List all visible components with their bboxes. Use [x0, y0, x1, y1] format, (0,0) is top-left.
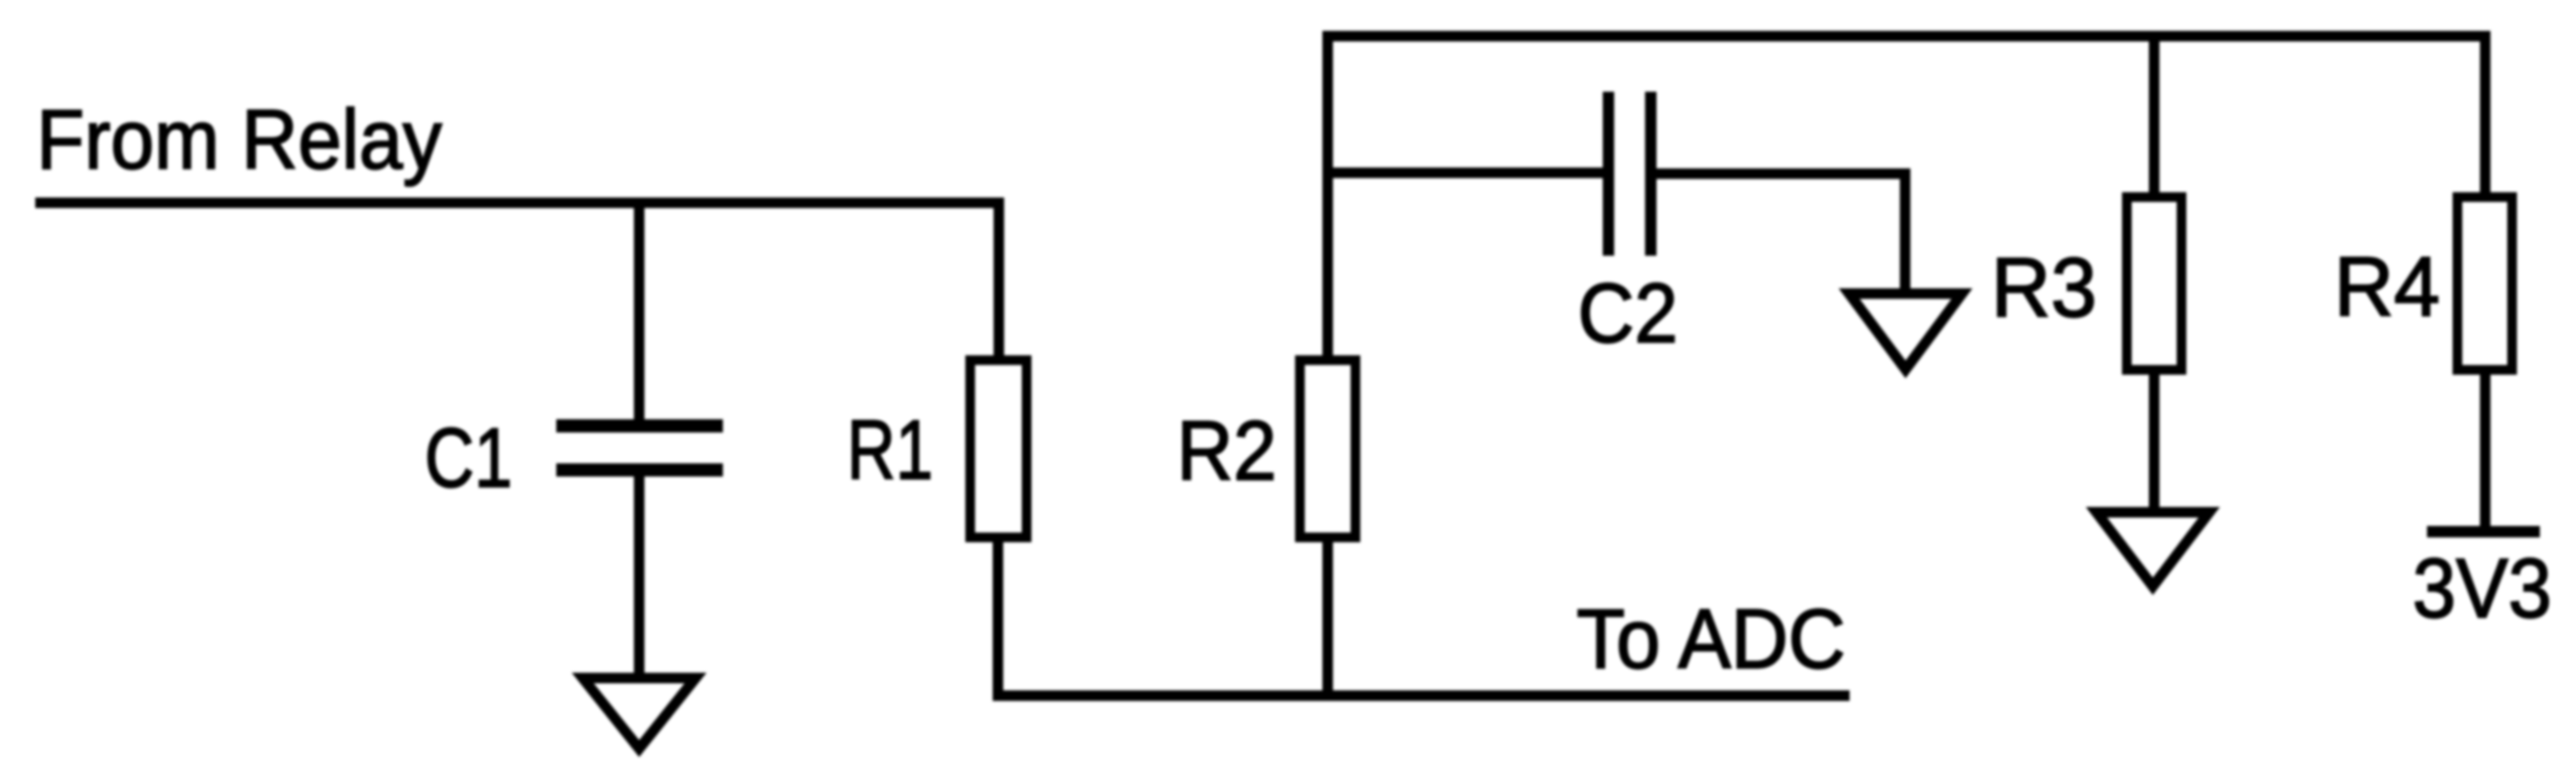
ground (below R3): [2096, 512, 2209, 586]
capacitor C1: [556, 426, 723, 470]
wire: R1 bottom lead and bottom rail to ADC: [998, 538, 1850, 696]
power rail 3V3 bar: [2427, 526, 2540, 538]
wire: C1 bottom lead to ground: [634, 469, 644, 677]
wire: R3 bottom lead to ground: [2149, 366, 2160, 512]
resistor R3: [2127, 197, 2182, 370]
resistor R1: [971, 361, 1027, 538]
ground (right of C2): [1850, 294, 1962, 369]
wire: tap from R2 node to C2 left plate: [1322, 168, 1604, 178]
svg-text:From Relay: From Relay: [36, 93, 442, 187]
svg-text:R4: R4: [2334, 240, 2440, 334]
wire: C2 right plate to ground drop: [1656, 174, 1905, 291]
wire: input net from relay, across to R1 top: [35, 203, 999, 355]
wire: R2 bottom lead to ADC rail: [1322, 538, 1333, 696]
wire: R2 top lead, top rail, R4 top lead: [1328, 36, 2485, 357]
resistor R2: [1300, 361, 1356, 538]
svg-text:R1: R1: [847, 403, 934, 497]
svg-text:R2: R2: [1177, 404, 1277, 498]
svg-text:3V3: 3V3: [2413, 541, 2552, 636]
svg-text:C2: C2: [1578, 266, 1679, 361]
svg-text:C1: C1: [425, 411, 513, 505]
svg-text:To ADC: To ADC: [1576, 592, 1845, 687]
wire: R4 bottom lead to 3V3 rail: [2480, 366, 2490, 532]
svg-text:R3: R3: [1992, 241, 2097, 335]
wire: C1 top lead (junction on input net): [634, 203, 644, 421]
ground (below C1): [583, 678, 696, 749]
resistor R4: [2458, 197, 2513, 370]
wire: R3 top lead from top rail: [2149, 41, 2160, 194]
capacitor C2: [1609, 92, 1651, 256]
